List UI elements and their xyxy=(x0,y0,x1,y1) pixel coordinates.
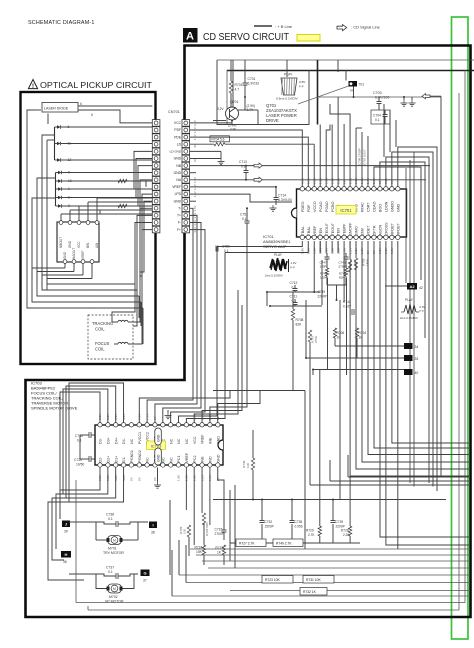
svg-text:120K: 120K xyxy=(320,276,327,280)
svg-text:6.3V/100: 6.3V/100 xyxy=(375,96,389,100)
svg-text:D3+: D3+ xyxy=(106,437,110,444)
svg-text:COIL: COIL xyxy=(95,327,105,332)
svg-text:TBAL: TBAL xyxy=(307,226,311,235)
svg-text:6: 6 xyxy=(80,102,82,106)
svg-text:CD SERVO CIRCUIT: CD SERVO CIRCUIT xyxy=(203,32,289,43)
svg-text:CEAO: CEAO xyxy=(373,201,377,212)
svg-text:C712: C712 xyxy=(290,281,298,285)
svg-text:C713: C713 xyxy=(239,160,247,164)
svg-text:2ms 0.1V/DIV: 2ms 0.1V/DIV xyxy=(400,316,418,320)
svg-text:1.6V: 1.6V xyxy=(177,474,181,481)
svg-text:p-p: p-p xyxy=(420,309,425,313)
svg-text:GND: GND xyxy=(68,240,72,248)
svg-text:GND: GND xyxy=(174,157,182,161)
svg-text:GNDO: GNDO xyxy=(390,201,394,212)
svg-text:3: 3 xyxy=(68,204,70,208)
svg-text:D2-: D2- xyxy=(99,456,103,463)
svg-text:INB: INB xyxy=(201,456,205,463)
svg-text:0.056: 0.056 xyxy=(295,525,303,529)
svg-text:G: G xyxy=(143,571,146,576)
svg-text:C749: C749 xyxy=(318,290,326,294)
svg-text:POAO: POAO xyxy=(325,201,329,212)
svg-text:11: 11 xyxy=(68,142,72,146)
svg-text:INB: INB xyxy=(209,437,213,444)
svg-text:NC: NC xyxy=(177,438,181,444)
svg-text:NB: NB xyxy=(176,164,181,168)
svg-text:D3-: D3- xyxy=(99,437,103,444)
svg-text:3.2V: 3.2V xyxy=(217,107,224,111)
svg-text:COIL: COIL xyxy=(95,347,105,352)
svg-text:42: 42 xyxy=(419,286,423,290)
svg-text:2200P: 2200P xyxy=(318,295,327,299)
svg-text:C707 0.027: C707 0.027 xyxy=(363,149,367,165)
svg-text:GND: GND xyxy=(157,454,161,462)
svg-text:H: H xyxy=(65,552,68,557)
svg-text:SPINDLE MOTOR DRIVE: SPINDLE MOTOR DRIVE xyxy=(31,406,78,411)
svg-text:0.1: 0.1 xyxy=(241,165,246,169)
svg-text:!: ! xyxy=(32,84,34,90)
svg-text:NC: NC xyxy=(169,438,173,444)
svg-text:F+: F+ xyxy=(177,228,181,232)
svg-text:M: M xyxy=(113,587,116,591)
svg-text:D4-: D4- xyxy=(122,437,126,444)
svg-text:0.8V: 0.8V xyxy=(301,177,305,184)
svg-text:Q701: Q701 xyxy=(230,100,239,104)
svg-text:TEBPF: TEBPF xyxy=(343,223,347,236)
svg-text:GND: GND xyxy=(216,436,220,444)
svg-text:VCC: VCC xyxy=(174,121,182,125)
svg-text:39: 39 xyxy=(64,530,68,534)
svg-text:GND: GND xyxy=(216,454,220,462)
svg-text:PDF: PDF xyxy=(307,204,311,212)
svg-text:SCHEMATIC DIAGRAM-1: SCHEMATIC DIAGRAM-1 xyxy=(28,20,95,26)
svg-text:C737: C737 xyxy=(106,566,114,570)
svg-text:PCBO: PCBO xyxy=(331,201,335,212)
svg-text:NC: NC xyxy=(185,438,189,444)
svg-text:EIMO: EIMO xyxy=(355,226,359,236)
svg-text:IND: IND xyxy=(209,456,213,463)
svg-text:1: 1 xyxy=(68,187,70,191)
svg-text:NC: NC xyxy=(169,457,173,463)
svg-text:0.1: 0.1 xyxy=(108,570,113,574)
svg-text:LPD: LPD xyxy=(175,192,182,196)
svg-text:NC: NC xyxy=(161,457,165,463)
svg-text:D4+: D4+ xyxy=(114,437,118,444)
svg-text:NBOUT: NBOUT xyxy=(59,237,63,248)
svg-text:2700P: 2700P xyxy=(215,532,225,536)
svg-text:270K: 270K xyxy=(314,335,318,343)
svg-text:TEOUT: TEOUT xyxy=(325,222,329,235)
svg-text:33: 33 xyxy=(415,357,419,361)
svg-text:LDON: LDON xyxy=(384,201,388,212)
svg-text:100: 100 xyxy=(183,529,187,534)
svg-text:PGND1: PGND1 xyxy=(130,450,134,462)
svg-text:VCC: VCC xyxy=(193,436,197,444)
svg-text:C715: C715 xyxy=(215,528,223,532)
svg-text:GND: GND xyxy=(174,199,182,203)
svg-text:36: 36 xyxy=(63,560,67,564)
svg-text:VCC: VCC xyxy=(77,241,81,248)
svg-text:PC2: PC2 xyxy=(193,456,197,463)
svg-text:R715: R715 xyxy=(215,546,223,550)
svg-text:2ms 0.1V/DIV: 2ms 0.1V/DIV xyxy=(265,274,283,278)
svg-text:0.1: 0.1 xyxy=(375,118,380,122)
svg-text:NAOUT: NAOUT xyxy=(72,248,76,259)
svg-text:180P: 180P xyxy=(320,265,327,269)
svg-text:150K: 150K xyxy=(366,258,370,266)
svg-text:0.1: 0.1 xyxy=(242,217,247,221)
svg-text:82K: 82K xyxy=(296,323,303,327)
svg-text:PLAY: PLAY xyxy=(274,253,283,257)
svg-text:12: 12 xyxy=(68,158,72,162)
svg-text:VDET: VDET xyxy=(367,225,371,236)
svg-text:PCAO: PCAO xyxy=(319,201,323,212)
svg-text:RFDET: RFDET xyxy=(396,222,400,235)
svg-text:40: 40 xyxy=(415,371,419,375)
svg-text:D1-: D1- xyxy=(122,456,126,463)
svg-text:VREF: VREF xyxy=(185,452,189,462)
svg-text:T+: T+ xyxy=(177,214,181,218)
svg-text:M: M xyxy=(113,539,116,543)
svg-text:FOCUS: FOCUS xyxy=(95,341,110,346)
svg-text:100: 100 xyxy=(246,463,250,468)
svg-text:TBAL: TBAL xyxy=(301,226,305,235)
svg-text:82K: 82K xyxy=(339,276,344,280)
svg-text:GND: GND xyxy=(63,251,67,259)
svg-text:D2+: D2+ xyxy=(106,456,110,463)
svg-text:p-p: p-p xyxy=(299,84,304,88)
svg-text:PVCC1: PVCC1 xyxy=(138,432,142,444)
svg-text:2.7K: 2.7K xyxy=(308,533,315,537)
svg-text:CROSS: CROSS xyxy=(384,222,388,236)
svg-text:7.7V: 7.7V xyxy=(145,413,149,420)
svg-text:M702: M702 xyxy=(109,595,118,599)
svg-text:C739: C739 xyxy=(336,520,344,524)
svg-text:TEN: TEN xyxy=(337,228,341,236)
svg-text:FEN: FEN xyxy=(319,228,323,236)
svg-text:R728: R728 xyxy=(341,529,349,533)
svg-text:C708 2700P: C708 2700P xyxy=(358,148,362,165)
svg-text:0.1: 0.1 xyxy=(77,439,82,443)
svg-text:DRIVE: DRIVE xyxy=(266,118,279,123)
svg-text:34: 34 xyxy=(415,345,419,349)
svg-text:10/50: 10/50 xyxy=(76,463,84,467)
svg-text:2.2K: 2.2K xyxy=(343,533,350,537)
svg-text:PGND2: PGND2 xyxy=(138,450,142,462)
svg-text:IC701: IC701 xyxy=(340,208,352,213)
svg-text:1.6V: 1.6V xyxy=(193,205,197,211)
svg-text:R749 2.7K: R749 2.7K xyxy=(276,542,292,546)
svg-text:2700P: 2700P xyxy=(339,265,348,269)
svg-text:PLAY: PLAY xyxy=(284,73,293,77)
svg-text:R731 10K: R731 10K xyxy=(306,578,321,582)
svg-text:VREF: VREF xyxy=(172,185,181,189)
svg-text:0.5ms 0.2V/DIV: 0.5ms 0.2V/DIV xyxy=(276,97,299,101)
svg-text:PDE: PDE xyxy=(174,135,182,139)
svg-text:LD GND: LD GND xyxy=(170,150,182,154)
svg-text:TRV MOTOR: TRV MOTOR xyxy=(103,551,124,555)
svg-text:BIN: BIN xyxy=(86,242,90,248)
svg-text:ENV: ENV xyxy=(361,227,365,235)
svg-text:38: 38 xyxy=(151,531,155,535)
svg-text:15K: 15K xyxy=(196,550,203,554)
svg-text:CN701: CN701 xyxy=(168,110,180,114)
svg-text:T-: T- xyxy=(178,206,181,210)
svg-text:VREF: VREF xyxy=(201,434,205,444)
svg-text:RFAC: RFAC xyxy=(361,202,365,212)
svg-text:F-: F- xyxy=(178,221,181,225)
svg-text:NC: NC xyxy=(130,438,134,444)
svg-text:PDEO: PDEO xyxy=(301,201,305,212)
svg-text:NC: NC xyxy=(146,457,150,463)
svg-text:0.1: 0.1 xyxy=(108,517,113,521)
svg-text:6.3V/100: 6.3V/100 xyxy=(278,198,292,202)
svg-text:AGCN: AGCN xyxy=(379,225,383,236)
svg-text:GND: GND xyxy=(174,171,182,175)
svg-text:R729: R729 xyxy=(306,529,314,533)
svg-text:701: 701 xyxy=(359,83,365,87)
svg-text:RFDET: RFDET xyxy=(390,222,394,235)
svg-text:OFTR: OFTR xyxy=(373,225,377,235)
svg-text:R727 2.7K: R727 2.7K xyxy=(239,542,255,546)
svg-text:SP MOTOR: SP MOTOR xyxy=(105,600,124,604)
svg-text:R723 10K: R723 10K xyxy=(265,578,280,582)
svg-text:: + B Line: : + B Line xyxy=(275,24,293,29)
svg-text:R732 1K: R732 1K xyxy=(303,590,317,594)
svg-text:EMOFF: EMOFF xyxy=(349,222,353,236)
svg-text:AIN: AIN xyxy=(95,242,99,248)
svg-text:PC1: PC1 xyxy=(177,456,181,463)
svg-text:A2: A2 xyxy=(409,284,415,289)
svg-text:C736: C736 xyxy=(106,513,114,517)
svg-text:R708: R708 xyxy=(296,318,304,322)
svg-text:GND: GND xyxy=(157,434,161,442)
svg-text:1500P: 1500P xyxy=(265,525,274,529)
svg-text:1.8V: 1.8V xyxy=(312,177,316,184)
svg-text:C704: C704 xyxy=(373,114,381,118)
svg-text:R704 5.6: R704 5.6 xyxy=(212,138,225,142)
svg-text:6.3V/33: 6.3V/33 xyxy=(248,82,260,86)
svg-text:NA: NA xyxy=(176,178,181,182)
svg-text:VCCO: VCCO xyxy=(313,201,317,212)
svg-text:J: J xyxy=(65,522,67,527)
svg-text:TRACKING: TRACKING xyxy=(92,321,113,326)
svg-text:BOO: BOO xyxy=(379,204,383,212)
svg-text:M701: M701 xyxy=(108,547,117,551)
svg-text:8: 8 xyxy=(68,125,70,129)
svg-text:2: 2 xyxy=(68,196,70,200)
svg-text:PLAY: PLAY xyxy=(405,298,414,302)
svg-text:1.8V: 1.8V xyxy=(306,177,310,184)
svg-text:PDF: PDF xyxy=(174,128,181,132)
svg-text:10: 10 xyxy=(68,179,72,183)
svg-text:GND: GND xyxy=(396,203,400,212)
svg-text:6: 6 xyxy=(91,113,93,117)
svg-text:RF: RF xyxy=(350,89,354,93)
svg-text:OPTICAL PICKUP CIRCUIT: OPTICAL PICKUP CIRCUIT xyxy=(40,80,152,90)
svg-text:C703: C703 xyxy=(373,91,382,95)
svg-text:C701: C701 xyxy=(248,77,256,81)
svg-text:I: I xyxy=(152,523,153,528)
svg-text:R701: R701 xyxy=(235,83,243,87)
svg-text:p-p: p-p xyxy=(291,265,296,269)
svg-text:9: 9 xyxy=(68,171,70,175)
svg-text:: CD Signal Line: : CD Signal Line xyxy=(351,25,381,30)
svg-text:A: A xyxy=(186,31,194,43)
svg-text:37: 37 xyxy=(143,579,147,583)
svg-text:LD: LD xyxy=(177,142,182,146)
svg-text:C738: C738 xyxy=(295,520,303,524)
svg-text:4.7: 4.7 xyxy=(235,88,240,92)
svg-text:VREF: VREF xyxy=(313,225,317,236)
svg-text:LASER DIODE: LASER DIODE xyxy=(44,107,69,111)
svg-text:R723 680: R723 680 xyxy=(205,522,209,536)
svg-text:VREF: VREF xyxy=(81,250,85,259)
svg-text:D1+: D1+ xyxy=(114,456,118,463)
svg-text:C752: C752 xyxy=(265,520,273,524)
svg-text:C5RT: C5RT xyxy=(367,202,371,212)
svg-text:C714: C714 xyxy=(278,194,286,198)
svg-text:TEOUT: TEOUT xyxy=(331,222,335,235)
